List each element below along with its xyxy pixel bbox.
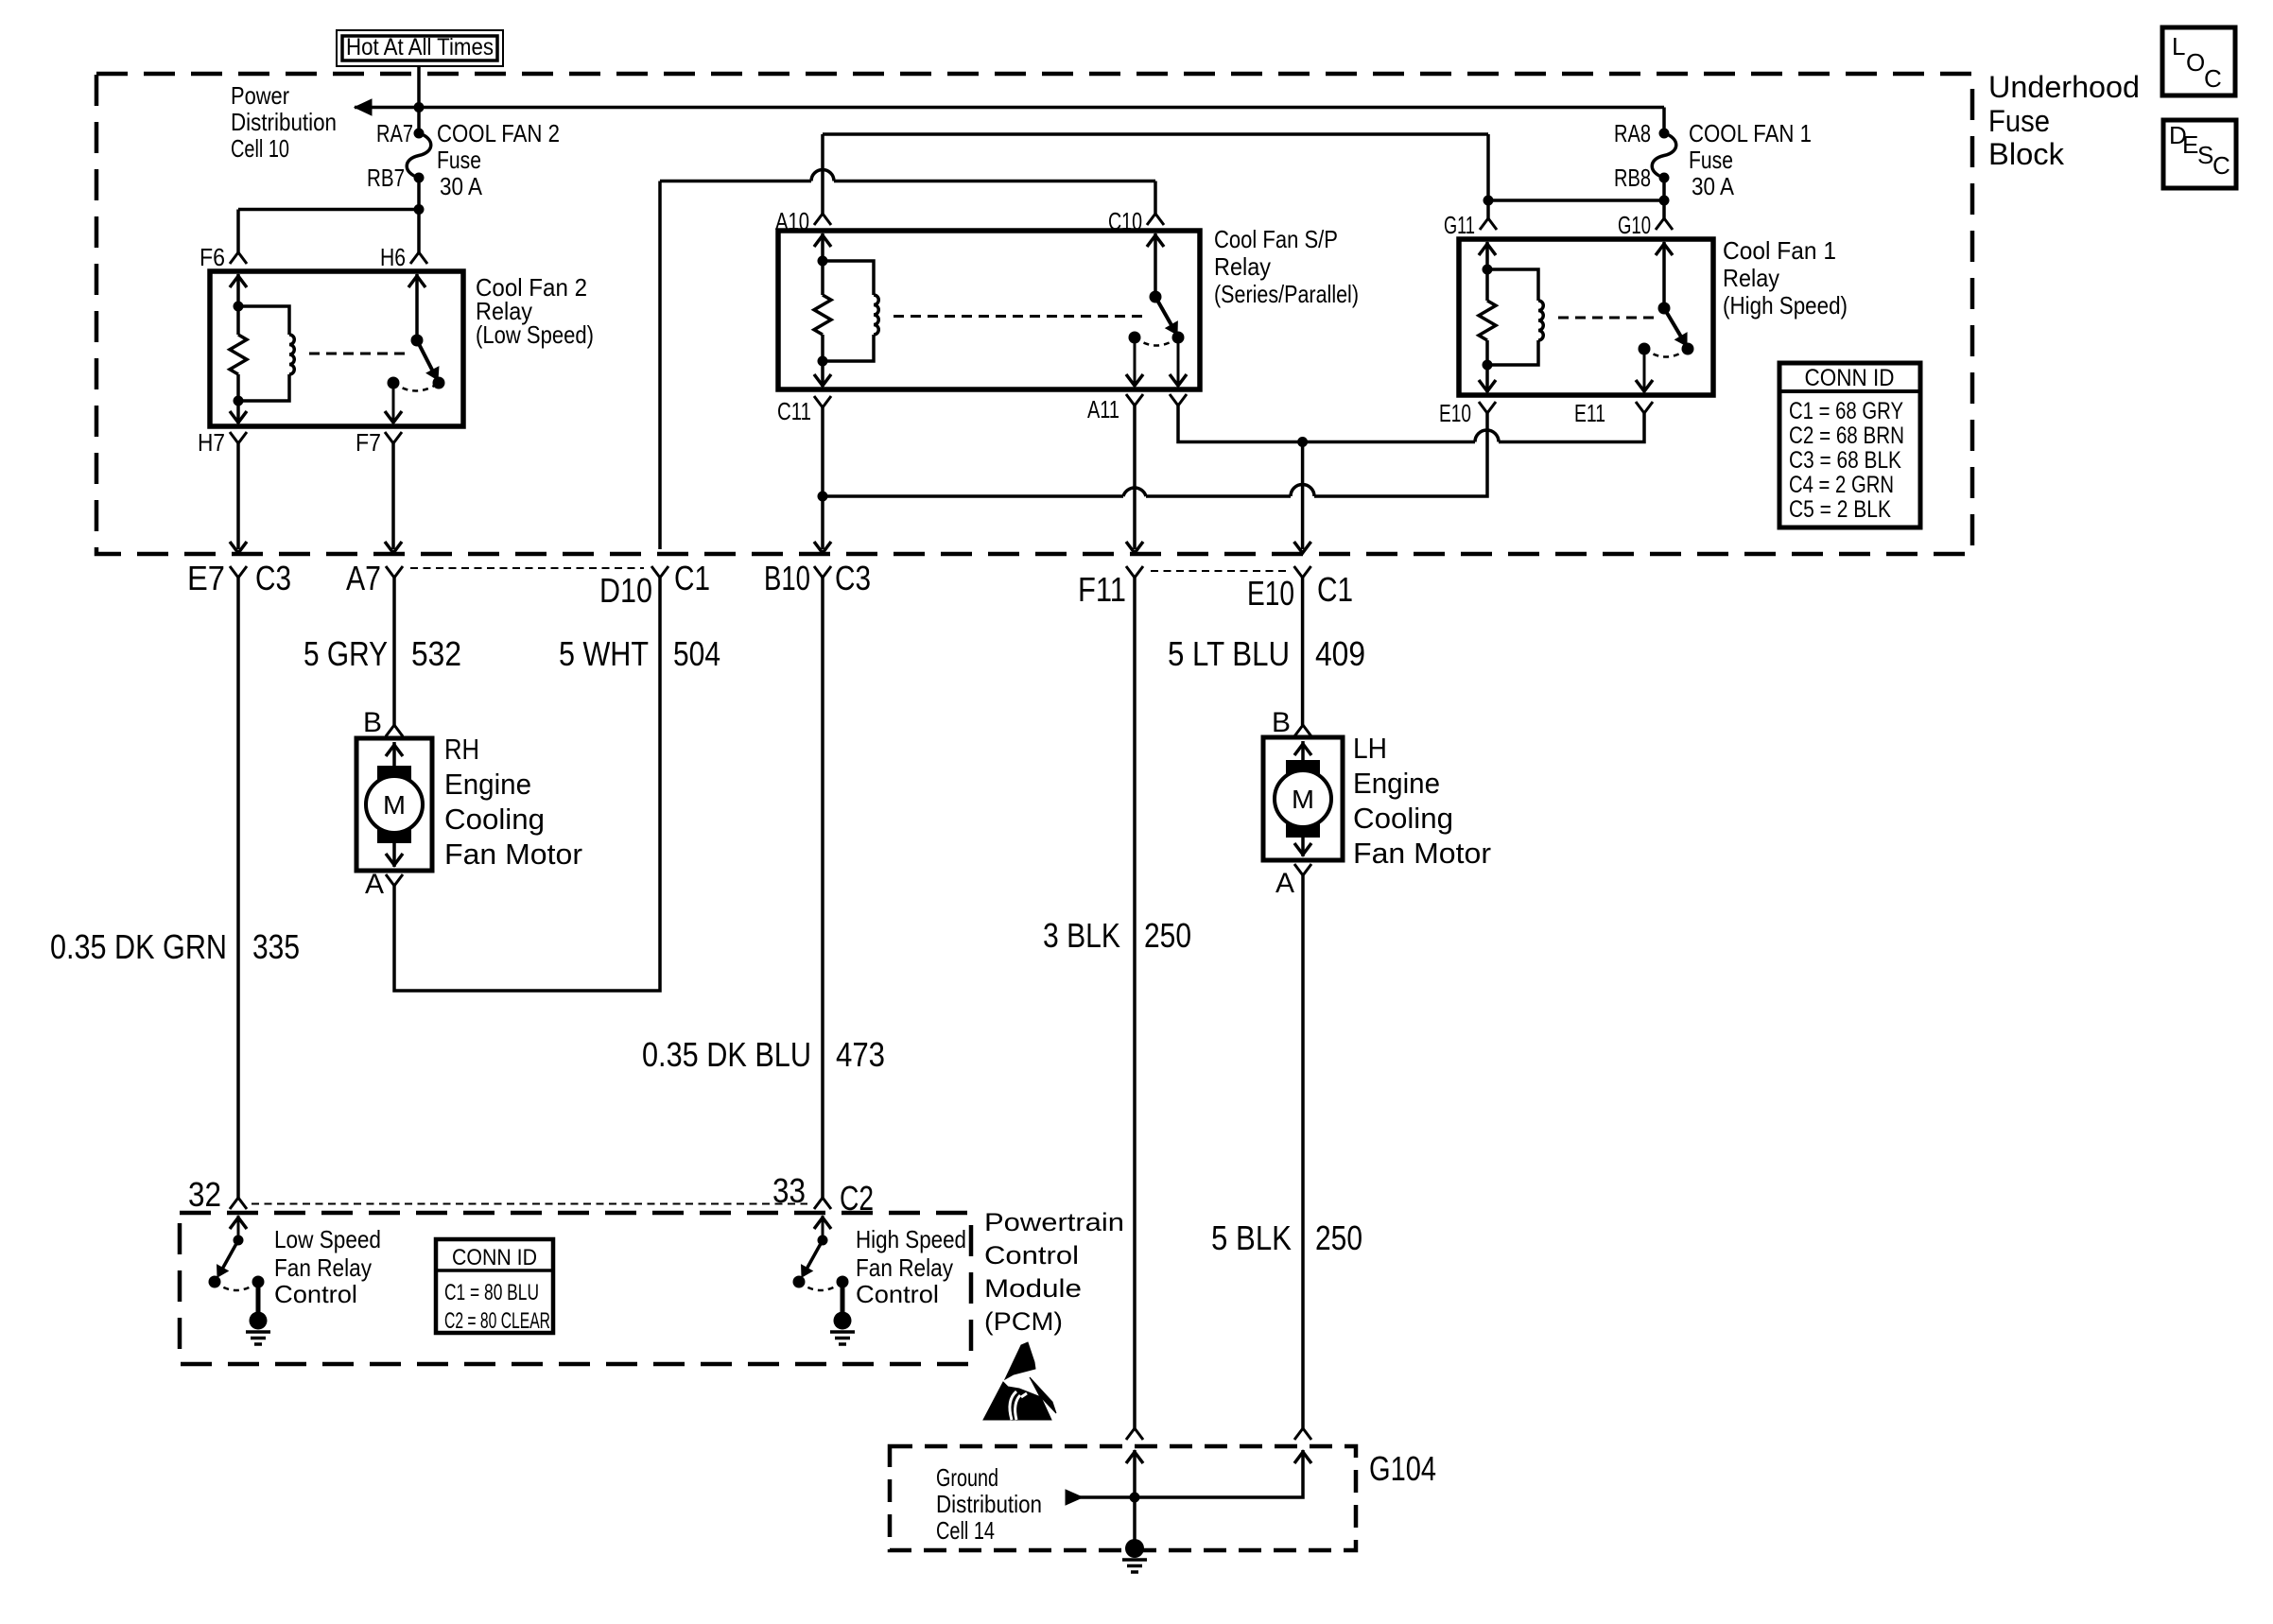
svg-text:5 LT BLU: 5 LT BLU (1168, 634, 1290, 673)
pin G10 connector (1656, 218, 1673, 230)
junction (1297, 437, 1308, 447)
relay K3 Cool Fan 1 Relay (High Speed) (1459, 239, 1713, 395)
svg-text:A10: A10 (775, 207, 809, 235)
pin E11 connector (1636, 402, 1653, 413)
svg-text:E: E (2182, 130, 2198, 159)
relay K2 Cool Fan S/P Relay (Series/Parallel) (778, 231, 1200, 389)
svg-text:5 BLK: 5 BLK (1211, 1218, 1292, 1257)
svg-text:Power: Power (231, 81, 289, 110)
wire net D10-C10 (660, 170, 1155, 550)
pin A connector (1294, 864, 1311, 875)
arrow (1126, 542, 1143, 553)
arrow (385, 542, 402, 553)
svg-text:C1 = 80 BLU: C1 = 80 BLU (444, 1280, 539, 1305)
wire relay E10 to B10 net (823, 413, 1487, 496)
pin E10 connector (1479, 402, 1496, 413)
svg-text:32: 32 (188, 1175, 221, 1214)
svg-text:E10: E10 (1439, 399, 1471, 427)
pin H6 connector (410, 252, 427, 264)
wire 5 GRY 532 (A7 to RH fan B) (392, 578, 396, 725)
svg-text:250: 250 (1144, 916, 1191, 955)
PCM dashed boundary (180, 1213, 971, 1364)
svg-text:Distribution: Distribution (936, 1490, 1042, 1518)
label Cool Fan 1 Relay (High Speed) (1723, 236, 1848, 320)
svg-text:504: 504 (673, 634, 720, 673)
svg-text:B: B (1272, 707, 1291, 738)
svg-text:Distribution: Distribution (231, 108, 337, 136)
svg-text:(Low Speed): (Low Speed) (476, 320, 594, 349)
pin connector into G104 (5 BLK) (1294, 1428, 1311, 1440)
svg-text:High Speed: High Speed (856, 1225, 966, 1253)
CONN ID table PCM (436, 1239, 553, 1334)
svg-text:Block: Block (1988, 137, 2065, 171)
svg-text:H6: H6 (380, 243, 406, 271)
svg-text:Cool Fan S/P: Cool Fan S/P (1214, 225, 1338, 253)
wire RH fan A return to D10 (5 WHT 504) (394, 578, 660, 991)
svg-text:C2 = 68 BRN: C2 = 68 BRN (1789, 423, 1904, 449)
svg-text:S: S (2197, 141, 2213, 169)
connector pin B10 / C3 (814, 566, 831, 578)
svg-text:E11: E11 (1574, 399, 1605, 427)
pin A11 connector (1126, 394, 1143, 406)
svg-text:C5 = 2 BLK: C5 = 2 BLK (1789, 496, 1891, 523)
svg-text:Cooling: Cooling (444, 803, 545, 836)
svg-text:Fan Motor: Fan Motor (444, 838, 582, 871)
svg-text:473: 473 (836, 1035, 885, 1074)
dashed connector line 32-33 (252, 1203, 807, 1205)
svg-text:B10: B10 (764, 559, 810, 597)
svg-text:M: M (1292, 785, 1314, 814)
connector pin D10 / C1 (651, 566, 668, 578)
label Underhood Fuse Block (1988, 70, 2140, 171)
wire E10 output drop to connector (1301, 442, 1305, 550)
svg-text:G104: G104 (1369, 1449, 1436, 1488)
wire H7 to E7 (236, 443, 240, 549)
pin F6 connector (230, 252, 247, 264)
label COOL FAN 2 Fuse 30 A (437, 119, 560, 200)
svg-text:Fan Relay: Fan Relay (274, 1253, 372, 1282)
svg-text:C1 = 68 GRY: C1 = 68 GRY (1789, 398, 1903, 424)
relay K1 Cool Fan 2 Relay (Low Speed) (210, 271, 463, 426)
DESC reference box (2163, 120, 2236, 188)
svg-text:30 A: 30 A (1692, 172, 1735, 200)
wire power distribution bus (355, 106, 1664, 110)
wire 0.35 DK GRN 335 (E7 to PCM 32) (236, 578, 240, 1198)
CONN ID table underhood (1779, 363, 1920, 527)
svg-text:A7: A7 (346, 559, 381, 597)
wire 3 BLK 250 (F11 to G104) (1133, 578, 1136, 1428)
svg-text:Control: Control (984, 1241, 1079, 1270)
svg-text:M: M (383, 790, 406, 820)
svg-text:C11: C11 (777, 397, 811, 425)
fuse COOL FAN 1 30A (1652, 129, 1676, 183)
junction (1659, 196, 1670, 206)
svg-text:Fan Relay: Fan Relay (856, 1253, 953, 1282)
svg-text:E7: E7 (187, 559, 225, 597)
wire S/P output to E11 (1178, 406, 1644, 442)
pin NO output connector (1170, 394, 1187, 406)
svg-text:C1: C1 (674, 559, 710, 597)
dashed connector line F11-E10 (1151, 570, 1287, 572)
junction (1484, 196, 1494, 206)
svg-text:Cell 14: Cell 14 (936, 1516, 995, 1545)
svg-text:C2 = 80 CLEAR: C2 = 80 CLEAR (444, 1308, 550, 1334)
label COOL FAN 1 Fuse 30 A (1689, 119, 1812, 200)
pin F7 connector (385, 432, 402, 443)
ground symbol G104 (1122, 1539, 1147, 1572)
svg-text:409: 409 (1315, 634, 1365, 673)
svg-text:30 A: 30 A (440, 172, 483, 200)
svg-text:C: C (2212, 151, 2230, 180)
connector pin F11 (1126, 566, 1143, 578)
label Cool Fan S/P Relay (Series/Parallel) (1214, 225, 1359, 308)
svg-text:RB8: RB8 (1614, 164, 1651, 192)
underhood fuse block dashed boundary (96, 74, 1972, 554)
ESD sensitive device symbol (983, 1342, 1056, 1420)
connector pin A7 (386, 566, 403, 578)
svg-text:0.35 DK GRN: 0.35 DK GRN (50, 927, 227, 966)
arrow (230, 542, 247, 553)
pin H7 connector (230, 432, 247, 443)
arrow (1294, 542, 1311, 553)
svg-text:F7: F7 (356, 428, 381, 457)
label Powertrain Control Module (PCM) (984, 1208, 1124, 1336)
pin C10 connector (1147, 214, 1164, 225)
svg-text:G10: G10 (1618, 211, 1651, 239)
svg-text:F11: F11 (1078, 570, 1126, 609)
connector pin E10 / C1 (1294, 566, 1311, 578)
label Low Speed Fan Relay Control (274, 1225, 381, 1308)
svg-text:3 BLK: 3 BLK (1043, 916, 1120, 955)
svg-text:Ground: Ground (936, 1463, 998, 1492)
wire ground splice right (1066, 1450, 1311, 1497)
G104 ground dashed boundary (890, 1446, 1356, 1550)
label High Speed Fan Relay Control (856, 1225, 966, 1308)
svg-text:Control: Control (856, 1280, 939, 1308)
svg-text:COOL FAN 1: COOL FAN 1 (1689, 119, 1812, 147)
svg-text:E10: E10 (1247, 574, 1294, 613)
pin A10 connector (814, 214, 831, 225)
pin 32 connector (230, 1198, 247, 1209)
svg-text:C4 = 2 GRN: C4 = 2 GRN (1789, 472, 1894, 498)
svg-text:Underhood: Underhood (1988, 70, 2140, 104)
svg-text:RB7: RB7 (367, 164, 405, 192)
svg-text:L: L (2172, 32, 2185, 60)
svg-text:G11: G11 (1444, 211, 1475, 239)
pin B connector (386, 725, 403, 736)
svg-text:LH: LH (1353, 732, 1387, 765)
junction (818, 492, 828, 502)
svg-text:Control: Control (274, 1280, 357, 1308)
svg-text:C: C (2204, 64, 2222, 93)
svg-text:Cooling: Cooling (1353, 802, 1453, 835)
svg-text:CONN ID: CONN ID (452, 1245, 537, 1270)
svg-text:Hot At All Times: Hot At All Times (346, 34, 494, 60)
wire fuse output to relay feeds (238, 178, 419, 252)
junction (1130, 1493, 1140, 1503)
wire C11 to B10 (821, 407, 824, 549)
svg-text:D10: D10 (599, 571, 652, 610)
wire ground splice left (1126, 1450, 1143, 1540)
svg-text:RA8: RA8 (1614, 119, 1651, 147)
svg-text:532: 532 (411, 634, 461, 673)
junction (414, 102, 425, 112)
svg-text:CONN ID: CONN ID (1805, 365, 1895, 391)
svg-text:C10: C10 (1108, 207, 1142, 235)
pin 33 connector (814, 1198, 831, 1209)
svg-text:Relay: Relay (1723, 264, 1779, 292)
fuse COOL FAN 2 30A (407, 129, 431, 183)
svg-text:5 WHT: 5 WHT (559, 634, 649, 673)
pin connector into G104 (3 BLK) (1126, 1428, 1143, 1440)
wire 0.35 DK BLU 473 (B10 to PCM 33) (821, 578, 824, 1198)
svg-text:(Series/Parallel): (Series/Parallel) (1214, 280, 1359, 308)
svg-text:Cool Fan 1: Cool Fan 1 (1723, 236, 1836, 265)
svg-text:RH: RH (444, 733, 479, 766)
svg-text:A: A (365, 869, 384, 900)
wire net A10-G11 coil feed (823, 134, 1488, 214)
wire 5 LT BLU 409 (E10 to LH fan B) (1301, 578, 1305, 725)
pin G11 connector (1480, 218, 1497, 230)
dashed connector line A7-D10 (410, 567, 644, 569)
svg-text:Engine: Engine (444, 768, 531, 801)
label RH Engine Cooling Fan Motor (444, 733, 582, 871)
svg-text:C3: C3 (835, 559, 871, 597)
pin C11 connector (814, 396, 831, 407)
wire feed to COOL FAN 1 fuse (1662, 108, 1666, 134)
svg-text:5 GRY: 5 GRY (304, 634, 388, 673)
wire A11 to F11 (1133, 406, 1136, 549)
svg-text:0.35 DK BLU: 0.35 DK BLU (642, 1035, 811, 1074)
LOC reference box (2162, 27, 2235, 95)
svg-text:335: 335 (252, 927, 300, 966)
svg-text:C3 = 68 BLK: C3 = 68 BLK (1789, 447, 1901, 474)
wire fuse 1 output node (1488, 134, 1664, 218)
svg-text:A: A (1275, 868, 1294, 899)
label LH Engine Cooling Fan Motor (1353, 732, 1491, 870)
svg-text:A11: A11 (1087, 395, 1119, 423)
svg-text:COOL FAN 2: COOL FAN 2 (437, 119, 560, 147)
svg-text:Fan Motor: Fan Motor (1353, 837, 1491, 870)
svg-text:33: 33 (772, 1171, 806, 1210)
connector pin E7 / C3 (230, 566, 247, 578)
wire 5 BLK 250 (LH fan A to G104) (1301, 875, 1305, 1428)
svg-text:Powertrain: Powertrain (984, 1208, 1124, 1236)
svg-text:Fuse: Fuse (437, 146, 481, 174)
wire battery feed down from Hot At All Times (417, 66, 421, 133)
svg-text:(PCM): (PCM) (984, 1307, 1063, 1336)
battery feed box Hot At All Times (337, 30, 503, 66)
svg-text:C1: C1 (1317, 570, 1353, 609)
transistor driver + ground : low speed fan relay control (209, 1216, 271, 1344)
transistor driver + ground : high speed fan relay control (793, 1216, 856, 1344)
arrow to Power Distribution (355, 99, 372, 115)
arrow (814, 542, 831, 553)
svg-text:Cell 10: Cell 10 (231, 134, 289, 163)
svg-text:O: O (2186, 48, 2205, 77)
motor M1 RH Engine Cooling Fan Motor (356, 738, 432, 871)
svg-text:Module: Module (984, 1274, 1082, 1303)
label Ground Distribution Cell 14 (936, 1463, 1042, 1545)
svg-text:250: 250 (1315, 1218, 1362, 1257)
wire S/P relay second output stem (1170, 337, 1187, 387)
svg-text:Relay: Relay (1214, 252, 1271, 281)
pin B connector (1294, 725, 1311, 736)
svg-text:F6: F6 (200, 243, 225, 271)
svg-text:H7: H7 (198, 428, 225, 457)
svg-text:Fuse: Fuse (1689, 146, 1733, 174)
label Cool Fan 2 Relay (Low Speed) (476, 273, 594, 349)
svg-text:B: B (363, 707, 382, 738)
svg-text:C3: C3 (255, 559, 291, 597)
svg-text:RA7: RA7 (376, 119, 413, 147)
pin A connector (386, 874, 403, 886)
arrow to Ground Distribution (1066, 1490, 1083, 1505)
svg-text:(High Speed): (High Speed) (1723, 291, 1848, 320)
svg-text:Low Speed: Low Speed (274, 1225, 381, 1253)
svg-text:Fuse: Fuse (1988, 104, 2050, 138)
motor M2 LH Engine Cooling Fan Motor (1263, 737, 1343, 860)
label Power Distribution Cell 10 (231, 81, 337, 163)
wire F7 to A7 (391, 443, 395, 549)
svg-text:Engine: Engine (1353, 767, 1440, 800)
junction (414, 204, 425, 215)
